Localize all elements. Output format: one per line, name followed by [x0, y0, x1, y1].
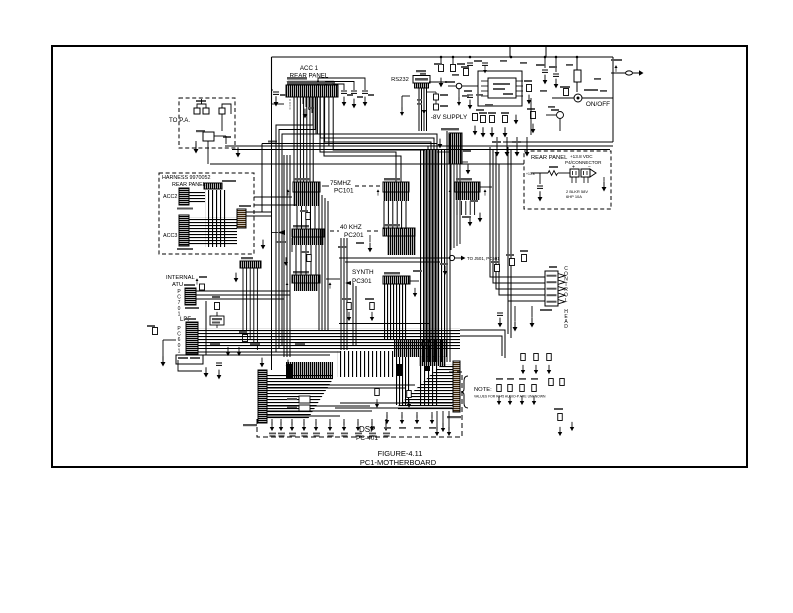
svg-text:TO P.A.: TO P.A.	[169, 117, 190, 124]
svg-text:ATU: ATU	[172, 282, 183, 288]
svg-text:ACC3: ACC3	[163, 233, 177, 239]
svg-text:REAR PANEL: REAR PANEL	[172, 182, 206, 188]
svg-text:PC1-MOTHERBOARD: PC1-MOTHERBOARD	[360, 458, 437, 467]
svg-text:40 KHZ: 40 KHZ	[340, 224, 362, 231]
svg-text:RS232: RS232	[391, 77, 409, 83]
svg-text:PC201: PC201	[344, 232, 364, 239]
svg-text:VALUES FOR RJ45 AUDIO-P ARE UN: VALUES FOR RJ45 AUDIO-P ARE UNKNOWN	[474, 395, 546, 399]
svg-text:D: D	[564, 324, 568, 330]
svg-text:P4/CONNECTOR: P4/CONNECTOR	[565, 160, 602, 165]
svg-text:PC301: PC301	[352, 278, 372, 285]
svg-text:6HP 10A: 6HP 10A	[566, 194, 582, 199]
svg-text:1: 1	[178, 348, 181, 354]
svg-text:-8V SUPPLY: -8V SUPPLY	[431, 114, 468, 121]
svg-text:L: L	[565, 298, 568, 304]
svg-text:ACC 1: ACC 1	[300, 65, 319, 72]
svg-text:REAR PANEL: REAR PANEL	[531, 155, 568, 161]
svg-text:+13.8 VDC: +13.8 VDC	[570, 154, 593, 159]
svg-text:75MHZ: 75MHZ	[330, 180, 351, 187]
svg-text:ACC2: ACC2	[163, 194, 177, 200]
svg-text:DSP: DSP	[359, 425, 375, 434]
svg-text:X: X	[289, 106, 291, 110]
svg-text:NOTE:: NOTE:	[474, 387, 492, 393]
svg-text:HARNESS 9970052: HARNESS 9970052	[162, 175, 211, 181]
svg-text:ON/OFF: ON/OFF	[586, 101, 610, 108]
svg-text:+13.8: +13.8	[526, 172, 535, 176]
svg-text:TO J501, PC501: TO J501, PC501	[467, 256, 500, 261]
svg-text:INTERNAL: INTERNAL	[166, 275, 195, 281]
svg-text:FIGURE-4.11: FIGURE-4.11	[378, 449, 423, 458]
svg-text:PC-401: PC-401	[356, 435, 378, 442]
svg-text:PC101: PC101	[334, 188, 354, 195]
svg-text:SYNTH: SYNTH	[352, 269, 374, 276]
